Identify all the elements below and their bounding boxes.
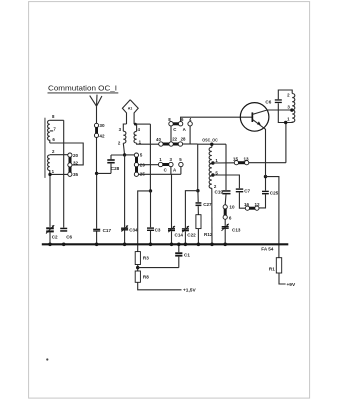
antenna — [90, 95, 102, 107]
svg-text:40: 40 — [156, 137, 161, 142]
wire C19 to link 10 — [224, 195, 227, 205]
wire C14 to bus — [171, 231, 173, 244]
svg-text:15: 15 — [233, 156, 239, 161]
node dot C28/A1 junction — [123, 153, 126, 156]
capacitor C6 (tank) — [275, 99, 282, 103]
wire pin6 to connector 32 — [50, 143, 83, 165]
wire drop to C14 — [171, 174, 173, 228]
svg-text:C6: C6 — [265, 100, 271, 105]
wire A1 coil2 down to node — [123, 143, 124, 155]
wire C13 to bus — [224, 229, 226, 244]
svg-text:5: 5 — [140, 153, 143, 158]
wire A1 drop vertical — [149, 124, 151, 191]
capacitor C13 (variable) — [222, 224, 229, 231]
coil L-top pins 8-7-6 — [48, 120, 54, 143]
svg-text:C6: C6 — [66, 235, 72, 240]
wire switch6 to base (long) — [181, 117, 253, 121]
node dot tap 5 — [211, 173, 214, 176]
svg-text:FA 54: FA 54 — [261, 247, 274, 252]
node dot A1 out — [134, 123, 137, 126]
wire C17 to bus — [96, 232, 98, 245]
wire C34 to bus — [124, 230, 126, 244]
connector bar 20/32/35 — [68, 153, 72, 176]
svg-text:+9V: +9V — [287, 282, 296, 288]
node dot antenna/C28 junction — [95, 172, 98, 175]
wire switch3/5 drops — [171, 167, 181, 175]
wire C7 to link16 — [239, 193, 245, 209]
capacitor C34 (variable) — [121, 225, 128, 231]
coil A1-right pins 4-1 — [134, 131, 137, 143]
svg-text:A1: A1 — [128, 106, 133, 110]
svg-text:C22: C22 — [187, 233, 196, 238]
svg-text:C25: C25 — [270, 190, 279, 195]
svg-text:C17: C17 — [103, 228, 112, 233]
wire pin1 down to C2 — [49, 174, 51, 227]
connector link 15 / 13 — [234, 161, 249, 165]
wire node to C22 branch — [185, 191, 198, 228]
tank circuit box with C6 and coil — [278, 90, 292, 123]
wire node down to C17 — [96, 173, 98, 228]
jack A1 diamond — [122, 100, 138, 132]
svg-text:32: 32 — [73, 161, 79, 166]
svg-text:C27: C27 — [203, 202, 212, 207]
svg-text:C14: C14 — [175, 233, 184, 238]
wire C2 to bus — [49, 232, 51, 244]
svg-text:C19: C19 — [215, 190, 224, 195]
svg-text:C34: C34 — [129, 227, 138, 232]
wire R8 to +1,5V — [138, 282, 182, 290]
wire node to R1 drop — [266, 177, 279, 258]
wire R1 to +9V — [279, 273, 286, 284]
emitter arrowhead — [257, 121, 261, 125]
capacitor C27 — [196, 202, 202, 206]
wire connector25 to switch drop — [139, 173, 181, 175]
stray dot bottom left — [46, 358, 48, 360]
wire link 42 down to node — [96, 138, 98, 174]
OSC_OC transformer — [198, 144, 226, 191]
switch row 1-3-5 — [158, 162, 183, 166]
svg-text:12: 12 — [255, 202, 261, 207]
svg-text:35: 35 — [73, 172, 79, 177]
resistor R8 — [135, 271, 140, 282]
wire collector diagonal — [252, 110, 267, 114]
title: Commutation OC_I — [48, 83, 119, 93]
capacitor C22 (variable) — [182, 226, 189, 232]
wire C6 drop vertical — [63, 120, 65, 227]
wire connector29 to switch1 — [139, 164, 159, 166]
capacitor C6 — [60, 228, 67, 232]
wire node down to C34 — [124, 155, 126, 228]
wire pin5 line to C7 — [213, 175, 240, 188]
wire C27 to R12 — [197, 206, 199, 215]
coil OSC windings — [209, 147, 212, 188]
svg-text:C13: C13 — [232, 228, 241, 233]
capacitor C7 — [236, 188, 243, 192]
node dot A1 drop — [149, 189, 152, 192]
coil A1-left pins 3-2 — [123, 131, 126, 143]
capacitor C2 (variable) — [46, 225, 54, 233]
capacitor C25 — [262, 191, 269, 195]
svg-text:R8: R8 — [143, 275, 149, 280]
wire node to connector 5 — [125, 154, 135, 156]
node dots on bus — [48, 243, 227, 247]
capacitor C19 — [222, 190, 230, 194]
node dot tap 1 — [211, 161, 214, 164]
switch row 8-6-4 — [169, 122, 193, 127]
node dot pin1 — [48, 173, 51, 176]
wire A1 coil pin1 to switch 40 — [137, 143, 159, 144]
node dot R3/R8/C1 — [136, 266, 139, 269]
svg-text:R1: R1 — [269, 266, 275, 271]
resistor R3 — [135, 252, 140, 265]
resistor R1 — [276, 258, 281, 273]
wire transformer right leg — [225, 144, 227, 190]
wire link6 to C13 — [224, 219, 226, 226]
transistor base bar — [252, 112, 254, 122]
connector link 10 / 6 — [223, 205, 227, 220]
wire pin1 to connector 35 — [50, 173, 68, 175]
ferrite rod — [44, 118, 46, 178]
svg-text:22: 22 — [172, 137, 177, 142]
capacitor C28 — [97, 155, 125, 173]
svg-text:13: 13 — [244, 156, 250, 161]
wire C3 to bus — [150, 231, 152, 244]
connector bar 5/29/25 — [134, 153, 138, 176]
wire collector to tank — [267, 109, 292, 111]
svg-text:+1,5V: +1,5V — [183, 288, 196, 294]
capacitor C17 — [93, 229, 100, 232]
wire A1 to vertical drop — [135, 123, 150, 125]
wire pin1 line to tank — [213, 123, 286, 164]
node dot left leg — [196, 189, 199, 192]
svg-text:6: 6 — [229, 215, 232, 220]
wire coil pin2 to bus — [211, 188, 213, 244]
svg-text:42: 42 — [99, 133, 105, 138]
wire node down to C3 — [150, 191, 152, 227]
capacitor C3 — [147, 227, 154, 231]
svg-text:OSC_OC: OSC_OC — [202, 138, 218, 143]
svg-text:C1: C1 — [184, 252, 190, 257]
capacitor C14 (variable) — [168, 226, 175, 232]
svg-text:R12: R12 — [204, 232, 213, 237]
wire R12 to bus — [197, 229, 199, 245]
wire node to C27 — [197, 191, 199, 202]
svg-text:C3: C3 — [155, 227, 161, 232]
svg-text:10: 10 — [229, 205, 235, 210]
svg-text:C28: C28 — [111, 166, 120, 171]
wire switch8 down to 22 — [170, 126, 172, 142]
capacitor C1 — [138, 244, 183, 267]
coil L-bot pins 2-1 — [48, 155, 50, 174]
ground bus — [42, 243, 288, 245]
svg-text:16: 16 — [244, 202, 250, 207]
node dot tank tap — [290, 108, 293, 111]
svg-text:R3: R3 — [143, 255, 149, 260]
coil tank windings — [292, 94, 295, 123]
switch row 40-22-28 — [159, 142, 183, 146]
wire link12 to C25 — [259, 195, 265, 208]
wire R3 to R8 — [137, 265, 139, 272]
svg-text:Commutation OC_I: Commutation OC_I — [48, 83, 117, 92]
wire node to R3 branch — [138, 191, 151, 252]
wire emitter vertical — [252, 119, 265, 176]
wire switch4 down to row — [189, 126, 191, 144]
transistor circle — [240, 103, 269, 132]
wire row to OSC transformer — [183, 143, 198, 145]
wire coil8 top to C6 drop — [50, 119, 64, 121]
wire coil2 top to connector 20 — [50, 154, 68, 156]
connector link 30 / 42 — [94, 123, 98, 137]
wire C22 to bus — [184, 231, 186, 244]
resistor R12 — [196, 215, 201, 229]
wire antenna to link 30-42 — [96, 106, 98, 123]
node dot tank bottom — [284, 121, 287, 124]
svg-text:20: 20 — [73, 153, 79, 158]
wire C25 to emitter node — [265, 177, 267, 191]
svg-text:C2: C2 — [52, 235, 58, 240]
node dot transformer top — [210, 143, 213, 146]
connector link 16 / 12 — [245, 206, 259, 210]
svg-text:28: 28 — [181, 137, 186, 142]
svg-text:30: 30 — [99, 123, 105, 128]
svg-text:C7: C7 — [244, 189, 250, 194]
node dot emitter junction — [264, 175, 267, 178]
